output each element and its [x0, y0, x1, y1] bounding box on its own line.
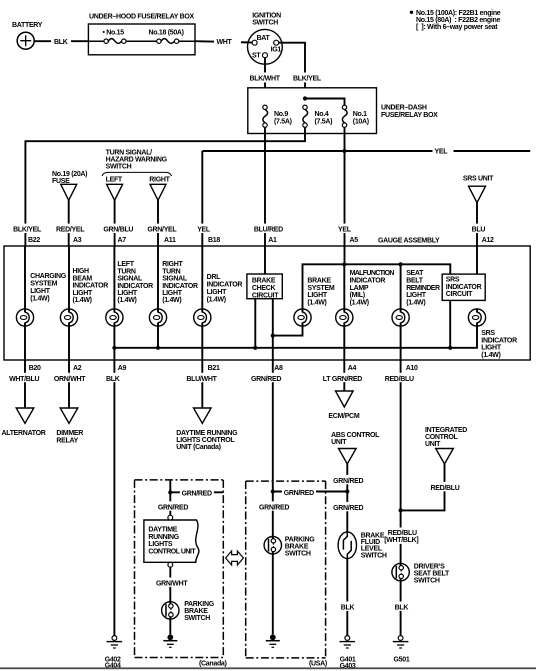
svg-text:(10A): (10A) — [353, 118, 369, 125]
svg-text:(1.4W): (1.4W) — [481, 352, 500, 359]
svg-text:RED/BLU: RED/BLU — [388, 530, 417, 537]
svg-text:LAMP: LAMP — [350, 285, 369, 292]
svg-text:A3: A3 — [73, 237, 82, 244]
svg-text:TURN: TURN — [162, 268, 180, 275]
svg-text:HAZARD WARNING: HAZARD WARNING — [106, 157, 168, 164]
svg-text:LEFT: LEFT — [117, 261, 134, 268]
svg-text:CIRCUIT: CIRCUIT — [446, 291, 473, 298]
svg-text:HIGH: HIGH — [73, 268, 90, 275]
svg-text:SWITCH: SWITCH — [361, 552, 387, 559]
svg-text:(1.4W): (1.4W) — [162, 297, 181, 304]
svg-text:LIGHTS: LIGHTS — [148, 541, 172, 548]
svg-text:A5: A5 — [350, 237, 359, 244]
svg-text:GRN/RED: GRN/RED — [333, 505, 363, 512]
svg-text:A7: A7 — [118, 237, 127, 244]
svg-text:(1.4W): (1.4W) — [30, 296, 49, 303]
svg-text:(USA): (USA) — [309, 660, 327, 667]
svg-text:(7.5A): (7.5A) — [274, 118, 292, 125]
svg-text:(MIL): (MIL) — [350, 292, 365, 299]
svg-text:IGNITION: IGNITION — [252, 13, 281, 20]
svg-text:YEL: YEL — [197, 226, 211, 233]
svg-text:INDICATOR: INDICATOR — [481, 337, 517, 344]
svg-text:INTEGRATED: INTEGRATED — [425, 427, 467, 434]
svg-text:GRN/RED: GRN/RED — [284, 490, 314, 497]
svg-text:No.15 (80A) : F22B2 engine: No.15 (80A) : F22B2 engine — [416, 17, 500, 24]
svg-text:SRS: SRS — [446, 277, 460, 284]
svg-text:WHT/BLU: WHT/BLU — [9, 376, 39, 383]
svg-text:RELAY: RELAY — [56, 437, 78, 444]
svg-text:GRN/RED: GRN/RED — [251, 376, 281, 383]
svg-text:BELT: BELT — [406, 278, 424, 285]
svg-text:CHECK: CHECK — [252, 285, 276, 292]
svg-text:PARKING: PARKING — [285, 537, 316, 544]
svg-text:INDICATOR: INDICATOR — [162, 283, 198, 290]
svg-text:ORN/WHT: ORN/WHT — [54, 376, 86, 383]
svg-text:BLU/RED: BLU/RED — [254, 226, 283, 233]
svg-text:REMINDER: REMINDER — [406, 285, 440, 292]
svg-text:BLK: BLK — [395, 604, 409, 611]
svg-text:CONTROL: CONTROL — [425, 434, 459, 441]
svg-text:GRN/RED: GRN/RED — [158, 504, 188, 511]
svg-text:SWITCH: SWITCH — [285, 551, 311, 558]
svg-text:DIMMER: DIMMER — [56, 430, 83, 437]
svg-text:RIGHT: RIGHT — [162, 261, 183, 268]
svg-text:CIRCUIT: CIRCUIT — [252, 292, 279, 299]
svg-text:UNDER–DASH: UNDER–DASH — [381, 105, 427, 112]
svg-text:(1.4W): (1.4W) — [307, 299, 326, 306]
svg-text:(1.4W): (1.4W) — [207, 297, 226, 304]
svg-text:FUSE/RELAY BOX: FUSE/RELAY BOX — [381, 112, 438, 119]
svg-text:BLK/YEL: BLK/YEL — [13, 226, 42, 233]
svg-text:No.15 (100A): F22B1 engine: No.15 (100A): F22B1 engine — [416, 10, 501, 17]
svg-text:B20: B20 — [29, 365, 41, 372]
svg-text:RED/YEL: RED/YEL — [56, 226, 85, 233]
svg-text:INDICATOR: INDICATOR — [117, 283, 153, 290]
svg-text:A8: A8 — [274, 365, 283, 372]
svg-text:RED/BLU: RED/BLU — [385, 376, 414, 383]
svg-text:LIGHT: LIGHT — [481, 345, 502, 352]
svg-text:SWITCH: SWITCH — [106, 164, 132, 171]
svg-text:BLK/YEL: BLK/YEL — [293, 76, 322, 83]
svg-text:ECM/PCM: ECM/PCM — [328, 413, 359, 420]
svg-text:YEL: YEL — [435, 149, 449, 156]
svg-text:SEAT BELT: SEAT BELT — [414, 570, 450, 577]
svg-text:LT GRN/RED: LT GRN/RED — [323, 376, 363, 383]
svg-text:LIGHT: LIGHT — [162, 290, 183, 297]
svg-text:LIGHT: LIGHT — [30, 288, 51, 295]
svg-text:ALTERNATOR: ALTERNATOR — [2, 430, 46, 437]
svg-text:SWITCH: SWITCH — [252, 20, 278, 27]
svg-text:• No.15: • No.15 — [103, 29, 125, 36]
svg-text:UNIT: UNIT — [331, 439, 347, 446]
svg-text:IG1: IG1 — [271, 47, 282, 54]
svg-text:BLK: BLK — [341, 604, 355, 611]
svg-text:RED/BLU: RED/BLU — [431, 485, 460, 492]
svg-text:BRAKE: BRAKE — [184, 608, 208, 615]
svg-text:BAT: BAT — [257, 35, 271, 42]
svg-text:CHARGING: CHARGING — [30, 273, 67, 280]
svg-text:GRN/RED: GRN/RED — [259, 504, 289, 511]
svg-text:DAYTIME: DAYTIME — [148, 527, 177, 534]
svg-text:BLU/WHT: BLU/WHT — [186, 376, 217, 383]
svg-text:GRN/BLU: GRN/BLU — [103, 226, 133, 233]
svg-text:G501: G501 — [394, 656, 410, 663]
svg-text:SYSTEM: SYSTEM — [30, 281, 57, 288]
svg-text:LIGHT: LIGHT — [73, 290, 94, 297]
svg-text:BLK/WHT: BLK/WHT — [250, 76, 281, 83]
svg-text:DRL: DRL — [207, 274, 222, 281]
svg-text:UNIT (Canada): UNIT (Canada) — [176, 444, 220, 451]
svg-text:SWITCH: SWITCH — [184, 615, 210, 622]
svg-text:No.4: No.4 — [315, 111, 329, 118]
svg-text:TURN: TURN — [117, 268, 135, 275]
svg-text:(1.4W): (1.4W) — [406, 299, 425, 306]
svg-text:A4: A4 — [348, 365, 357, 372]
svg-text:INDICATOR: INDICATOR — [207, 282, 243, 289]
svg-text:INDICATOR: INDICATOR — [73, 283, 109, 290]
svg-text:(1.4W): (1.4W) — [117, 297, 136, 304]
svg-text:BLK: BLK — [54, 39, 68, 46]
svg-text:BRAKE: BRAKE — [285, 544, 309, 551]
svg-text:(7.5A): (7.5A) — [315, 118, 333, 125]
svg-text:BLK: BLK — [106, 376, 120, 383]
svg-text:A12: A12 — [482, 237, 494, 244]
svg-text:RIGHT: RIGHT — [149, 177, 170, 184]
svg-text:WHT: WHT — [217, 39, 233, 46]
svg-text:MALFUNCTION: MALFUNCTION — [350, 270, 395, 277]
svg-text:GAUGE ASSEMBLY: GAUGE ASSEMBLY — [378, 238, 440, 245]
svg-text:INDICATOR: INDICATOR — [350, 278, 386, 285]
svg-text:SWITCH: SWITCH — [414, 577, 440, 584]
svg-text:No.19 (20A): No.19 (20A) — [52, 171, 87, 178]
svg-text:LEFT: LEFT — [106, 177, 123, 184]
svg-text:SRS UNIT: SRS UNIT — [463, 176, 494, 183]
svg-text:A11: A11 — [164, 237, 176, 244]
svg-text:(1.4W): (1.4W) — [350, 299, 369, 306]
svg-text:(1.4W): (1.4W) — [73, 297, 92, 304]
svg-text:LIGHTS CONTROL: LIGHTS CONTROL — [176, 437, 235, 444]
svg-text:No.18 (50A): No.18 (50A) — [149, 29, 184, 36]
svg-text:B18: B18 — [208, 237, 220, 244]
svg-text:A2: A2 — [73, 365, 82, 372]
svg-text:BEAM: BEAM — [73, 275, 93, 282]
svg-text:UNIT: UNIT — [425, 441, 441, 448]
svg-text:B21: B21 — [208, 365, 220, 372]
svg-text:CONTROL UNIT: CONTROL UNIT — [148, 548, 196, 555]
svg-text:[WHT/BLK]: [WHT/BLK] — [384, 537, 418, 544]
svg-text:DAYTIME RUNNING: DAYTIME RUNNING — [176, 430, 238, 437]
svg-text:GRN/RED: GRN/RED — [333, 478, 363, 485]
svg-text:BRAKE: BRAKE — [307, 277, 331, 284]
svg-text:BATTERY: BATTERY — [12, 22, 43, 29]
svg-text:LIGHT: LIGHT — [307, 292, 328, 299]
svg-text:RUNNING: RUNNING — [148, 534, 179, 541]
svg-text:BLU: BLU — [472, 226, 486, 233]
svg-text:No.9: No.9 — [274, 111, 288, 118]
svg-text:GRN/YEL: GRN/YEL — [147, 226, 177, 233]
svg-text:A1: A1 — [268, 237, 277, 244]
svg-text:LIGHT: LIGHT — [117, 290, 138, 297]
svg-text:[ ]: With 6–way power seat: [ ]: With 6–way power seat — [416, 24, 498, 31]
svg-text:SIGNAL: SIGNAL — [117, 276, 143, 283]
svg-text:GRN/RED: GRN/RED — [182, 491, 212, 498]
svg-text:BRAKE: BRAKE — [252, 277, 276, 284]
svg-text:PARKING: PARKING — [184, 601, 215, 608]
svg-text:ST: ST — [252, 53, 261, 60]
svg-text:SYSTEM: SYSTEM — [307, 285, 334, 292]
svg-text:SIGNAL: SIGNAL — [162, 276, 188, 283]
svg-text:No.1: No.1 — [353, 111, 367, 118]
svg-text:A10: A10 — [406, 365, 418, 372]
svg-text:UNDER–HOOD FUSE/RELAY BOX: UNDER–HOOD FUSE/RELAY BOX — [89, 14, 195, 21]
svg-text:SRS: SRS — [481, 330, 495, 337]
svg-text:SEAT: SEAT — [406, 270, 424, 277]
svg-text:YEL: YEL — [338, 226, 352, 233]
svg-text:LIGHT: LIGHT — [406, 292, 427, 299]
svg-text:TURN SIGNAL/: TURN SIGNAL/ — [106, 149, 153, 156]
svg-text:A9: A9 — [118, 365, 127, 372]
svg-text:B22: B22 — [28, 237, 40, 244]
svg-text:LIGHT: LIGHT — [207, 289, 228, 296]
svg-text:(Canada): (Canada) — [199, 660, 227, 667]
svg-text:GRN/WHT: GRN/WHT — [156, 580, 188, 587]
svg-text:ABS CONTROL: ABS CONTROL — [331, 432, 380, 439]
svg-text:DRIVER’S: DRIVER’S — [414, 563, 445, 570]
svg-text:INDICATOR: INDICATOR — [446, 284, 482, 291]
